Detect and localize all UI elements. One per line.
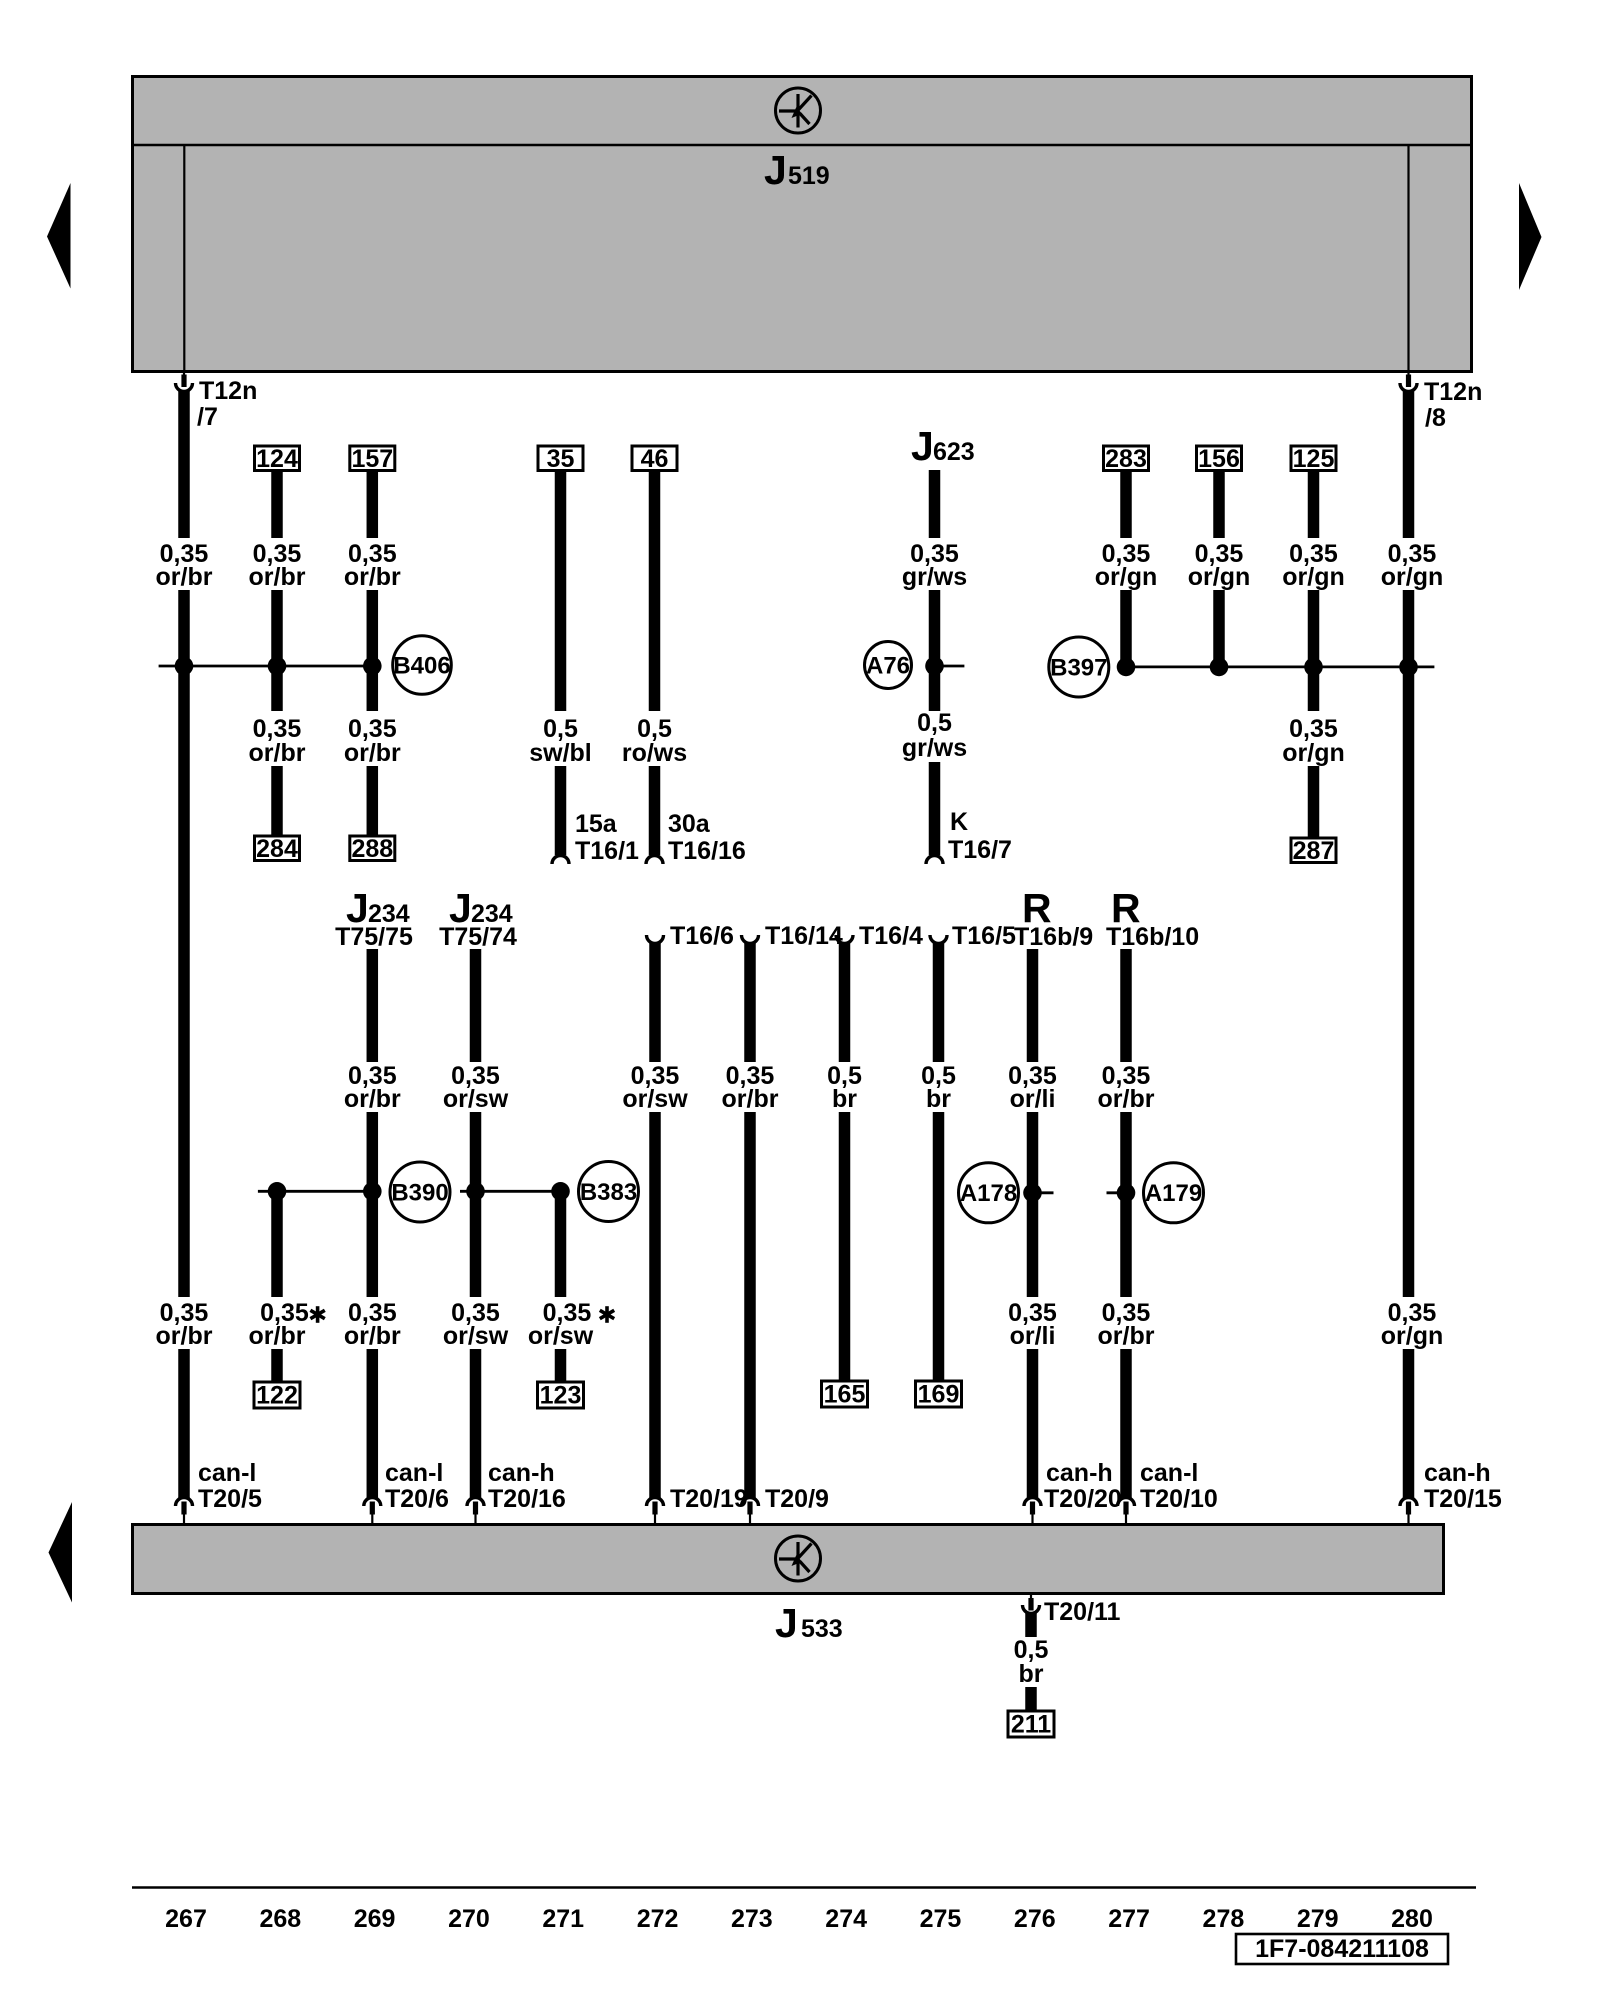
svg-text:273: 273	[731, 1905, 773, 1933]
wire label 0,35 or/li (lower, track 276)	[1008, 1299, 1057, 1350]
wire 0,35 or/gn from terminal 283	[1120, 470, 1132, 538]
terminal box 35	[538, 445, 583, 473]
svg-text:156: 156	[1198, 445, 1240, 473]
junction of or/li wire with connection A178	[1023, 1184, 1042, 1203]
svg-text:or/br: or/br	[722, 1085, 779, 1113]
connection symbol B383	[579, 1162, 639, 1222]
svg-text:157: 157	[351, 445, 393, 473]
wire segment through junction B406 (track 269)	[367, 590, 379, 711]
continuation arrow right (to adjacent current track)	[1519, 183, 1542, 290]
svg-text:T20/16: T20/16	[488, 1485, 566, 1513]
wire label 0,35 or/br (upper, track 268)	[249, 540, 306, 591]
label J623 (engine control unit)	[911, 423, 975, 469]
wire 0,35 or/br track 267 upper segment	[178, 390, 190, 538]
wire label 0,5 ro/ws	[622, 715, 687, 767]
wire 0,5 br down to terminal 169	[933, 1112, 945, 1382]
junction of wire 283 with connection B397	[1117, 658, 1136, 677]
svg-text:277: 277	[1108, 1905, 1150, 1933]
wire 0,35 or/li down to T20/20	[1027, 1349, 1039, 1498]
wire label 0,5 br (track 274)	[827, 1062, 862, 1113]
svg-text:271: 271	[542, 1905, 584, 1933]
svg-text:283: 283	[1105, 445, 1147, 473]
svg-text:J: J	[764, 147, 787, 193]
svg-text:T20/5: T20/5	[198, 1485, 262, 1513]
svg-text:125: 125	[1293, 445, 1335, 473]
current-flow continuation symbol (circled arrow) on J519	[776, 88, 821, 133]
junction of wire 280 with connection B397	[1399, 658, 1418, 677]
svg-text:T16/1: T16/1	[575, 837, 639, 865]
continuation arrow bottom left	[49, 1502, 73, 1603]
svg-text:or/sw: or/sw	[528, 1322, 594, 1350]
svg-text:or/gn: or/gn	[1095, 563, 1158, 591]
svg-text:br: br	[926, 1085, 951, 1113]
wire 0,5 br from T16/4	[839, 942, 851, 1062]
terminal box 165 (earth connection)	[822, 1381, 868, 1409]
svg-text:or/gn: or/gn	[1282, 563, 1345, 591]
wire label 0,5 gr/ws	[902, 709, 967, 762]
wire segment to connection B397 (track of 156)	[1213, 590, 1225, 667]
svg-text:T20/10: T20/10	[1140, 1485, 1218, 1513]
wire 0,35 or/sw from J234 T75/74	[470, 949, 482, 1062]
svg-text:or/sw: or/sw	[443, 1085, 509, 1113]
connection symbol B406	[393, 636, 452, 695]
open connector 30a T16/16	[646, 810, 746, 865]
wire label 0,35 or/br (upper, track 267)	[156, 540, 213, 591]
junction of wire 268 with connection B406	[268, 657, 287, 676]
svg-text:A179: A179	[1145, 1180, 1202, 1207]
svg-text:can-l: can-l	[385, 1459, 443, 1487]
label R T16b/9 (radio connector pin 9)	[1014, 885, 1093, 951]
svg-text:T75/75: T75/75	[335, 923, 413, 951]
connector T12n/7 at J519	[176, 371, 258, 431]
wire connection line B390 (or/br connection)	[258, 1190, 377, 1193]
connector T12n/8 at J519	[1400, 371, 1482, 432]
svg-text:T20/15: T20/15	[1424, 1485, 1502, 1513]
junction of wire 269 with connection B406	[363, 657, 382, 676]
current-flow continuation symbol (circled arrow) on J533	[776, 1536, 821, 1581]
terminal box 288	[350, 835, 395, 863]
svg-text:T16/6: T16/6	[670, 922, 734, 950]
connector T20/20 can-h at J533	[1024, 1459, 1122, 1524]
wire 0,5 gr/ws lower part	[929, 762, 941, 855]
wire 0,35 or/br down to terminal 288	[367, 766, 379, 837]
svg-text:K: K	[950, 808, 968, 836]
terminal box 283	[1104, 445, 1149, 473]
open connector T16/14	[742, 922, 843, 950]
svg-text:or/li: or/li	[1010, 1322, 1056, 1350]
svg-text:or/li: or/li	[1010, 1085, 1056, 1113]
label J234 T75/74 (airbag control unit pin 74)	[439, 885, 517, 951]
wire 0,35 or/br to T20/6	[367, 1349, 379, 1498]
svg-text:124: 124	[256, 445, 298, 473]
wire label 0,35 or/br (mid, track 277)	[1098, 1062, 1155, 1113]
junction of wire 122 with connection B390	[268, 1182, 287, 1201]
svg-text:or/br: or/br	[1098, 1322, 1155, 1350]
svg-text:211: 211	[1011, 1711, 1051, 1739]
wire 0,35 or/br down from B390 to label (track 268 lower)	[271, 1191, 283, 1297]
wire 0,35 gr/ws from J623	[929, 470, 941, 538]
svg-text:T20/20: T20/20	[1044, 1485, 1122, 1513]
wire 0,35 or/li from R T16b/9	[1027, 949, 1039, 1062]
svg-text:278: 278	[1203, 1905, 1245, 1933]
open connector T16/5	[930, 922, 1016, 950]
svg-text:J: J	[911, 423, 934, 469]
wire label 0,5 br (earth wire)	[1014, 1636, 1049, 1688]
svg-text:276: 276	[1014, 1905, 1056, 1933]
svg-text:T75/74: T75/74	[439, 923, 517, 951]
terminal box 125	[1291, 445, 1336, 473]
connection symbol A76	[865, 642, 912, 689]
connector T20/11 at bottom of J533	[1023, 1594, 1121, 1626]
svg-text:15a: 15a	[575, 810, 618, 838]
svg-text:br: br	[1019, 1660, 1044, 1688]
terminal box 211 (earth connection)	[1008, 1711, 1054, 1739]
current track numbers 267-280	[165, 1905, 1433, 1933]
wire label 0,35 or/br (track 273)	[722, 1062, 779, 1113]
terminal box 46	[632, 445, 677, 473]
svg-text:T16/14: T16/14	[765, 922, 843, 950]
svg-text:269: 269	[354, 1905, 396, 1933]
open connector T16/6	[647, 922, 734, 950]
open connector T16/4	[836, 922, 923, 950]
internal pin line T12n/8 inside J519	[1407, 146, 1409, 370]
connector T20/16 can-h at J533	[467, 1459, 566, 1524]
wire label 0,35 or/sw (track 272)	[622, 1062, 688, 1113]
svg-text:can-h: can-h	[1424, 1459, 1491, 1487]
svg-text:or/br: or/br	[1098, 1085, 1155, 1113]
wire 0,5 sw/bl lower part	[555, 766, 567, 855]
wire label 0,35 or/gn (track of 156)	[1188, 540, 1251, 591]
wire label 0,5 sw/bl	[529, 715, 592, 767]
svg-text:or/br: or/br	[249, 1322, 306, 1350]
wire connection line B383 (or/sw connection)	[460, 1190, 563, 1193]
svg-text:519: 519	[788, 162, 830, 190]
svg-text:sw/bl: sw/bl	[529, 739, 592, 767]
wire label 0,35 or/br (below junction, track 268)	[249, 715, 306, 767]
wire label 0,35 or/gn (track of 125)	[1282, 540, 1345, 591]
current track scale line	[132, 1886, 1476, 1889]
svg-text:or/sw: or/sw	[443, 1322, 509, 1350]
junction of gr/ws wire with connection A76	[925, 657, 944, 676]
continuation arrow left (to adjacent current track)	[47, 183, 71, 289]
label J519	[764, 147, 830, 193]
svg-text:or/gn: or/gn	[1381, 1322, 1444, 1350]
svg-text:274: 274	[825, 1905, 867, 1933]
wire 0,35 or/sw to T20/16	[470, 1349, 482, 1498]
svg-text:or/br: or/br	[156, 1322, 213, 1350]
connection A179 stub line	[1107, 1191, 1127, 1194]
svg-text:288: 288	[351, 835, 393, 863]
terminal box 284	[255, 835, 300, 863]
wire segment through junction B390 (track 269)	[367, 1112, 379, 1297]
open connector 15a T16/1	[552, 810, 639, 865]
open connector K T16/7	[926, 808, 1012, 864]
wire 0,35 or/gn down to terminal 287	[1308, 766, 1320, 839]
wire label 0,35 * or/sw (track 271 lower)	[528, 1299, 614, 1350]
wire gr/ws middle segment	[929, 590, 941, 711]
svg-text:123: 123	[540, 1382, 582, 1410]
svg-text:T20/11: T20/11	[1044, 1598, 1121, 1626]
wire 0,35 or/br down to T20/10	[1120, 1349, 1132, 1498]
wire 0,5 ro/ws lower part	[649, 766, 661, 855]
wire label 0,35 or/li (mid, track 276)	[1008, 1062, 1057, 1113]
wire 0,35 or/br between 157 and junction B406	[367, 470, 379, 538]
wire segment through junction A179 (track 277)	[1120, 1112, 1132, 1297]
wire 0,35 or/br down to T20/9	[744, 1112, 756, 1498]
terminal box 156	[1197, 445, 1242, 473]
junction of wire 156 with connection B397	[1210, 658, 1229, 677]
wire label 0,5 br (track 275)	[921, 1062, 956, 1113]
connector T20/6 can-l at J533	[364, 1459, 449, 1524]
svg-text:T16b/10: T16b/10	[1106, 923, 1199, 951]
svg-text:/8: /8	[1425, 404, 1446, 432]
terminal box 124	[255, 445, 300, 473]
wire segment through junction B383 (track 270)	[470, 1112, 482, 1297]
wire 0,35 or/br from J234 T75/75	[367, 949, 379, 1062]
connector T20/19 at J533	[647, 1485, 748, 1524]
wire label 0,35 or/br (below junction, track 269)	[344, 715, 401, 767]
wire label 0,35 or/sw (lower, track 270)	[443, 1299, 509, 1350]
svg-text:B397: B397	[1050, 655, 1107, 682]
svg-text:or/br: or/br	[344, 1322, 401, 1350]
svg-text:169: 169	[918, 1381, 960, 1409]
svg-text:279: 279	[1297, 1905, 1339, 1933]
svg-text:280: 280	[1391, 1905, 1433, 1933]
label J234 T75/75 (airbag control unit pin 75)	[335, 885, 413, 951]
terminal box 122	[254, 1382, 300, 1410]
svg-text:T20/6: T20/6	[385, 1485, 449, 1513]
connection symbol A179	[1144, 1163, 1204, 1223]
svg-text:can-h: can-h	[1046, 1459, 1113, 1487]
svg-text:or/br: or/br	[344, 739, 401, 767]
terminal box 157	[350, 445, 395, 473]
svg-text:B383: B383	[580, 1179, 637, 1206]
wire label 0,35 or/br (lower, track 267)	[156, 1299, 213, 1350]
svg-text:1F7-084211108: 1F7-084211108	[1255, 1935, 1429, 1963]
connection A76 stub line	[935, 665, 965, 668]
svg-text:30a: 30a	[668, 810, 711, 838]
wire segment to connection B397 (track of 283)	[1120, 590, 1132, 667]
svg-text:165: 165	[824, 1381, 866, 1409]
wire 0,35 or/gn track 280 lower segment	[1403, 1349, 1415, 1498]
svg-text:or/sw: or/sw	[622, 1085, 688, 1113]
connection symbol B390	[390, 1162, 450, 1222]
diagram number box 1F7-084211108	[1236, 1934, 1448, 1964]
wire label 0,35 or/br (lower, track 277)	[1098, 1299, 1155, 1350]
wire label 0,35 or/gn (below junction, track 279)	[1282, 715, 1345, 767]
svg-text:br: br	[832, 1085, 857, 1113]
connection symbol B397	[1049, 637, 1109, 697]
junction of J234/75 wire with connection B390	[363, 1182, 382, 1201]
connector T20/5 can-l at J533	[176, 1459, 263, 1524]
svg-text:T12n: T12n	[1424, 378, 1482, 406]
connector T20/15 can-h at J533	[1400, 1459, 1502, 1524]
connection symbol A178	[959, 1163, 1019, 1223]
svg-text:/7: /7	[197, 403, 218, 431]
connector T20/10 can-l at J533	[1118, 1459, 1218, 1524]
wire label 0,35 or/br (lower, track 269)	[344, 1299, 401, 1350]
svg-text:can-l: can-l	[198, 1459, 256, 1487]
svg-text:or/br: or/br	[249, 563, 306, 591]
label R T16b/10 (radio connector pin 10)	[1106, 885, 1199, 951]
wire 0,35 or/br down to terminal 284	[271, 766, 283, 837]
svg-text:T16/5: T16/5	[952, 922, 1016, 950]
svg-text:or/gn: or/gn	[1188, 563, 1251, 591]
wire 0,35 or/br track 267 lower segment	[178, 1349, 190, 1498]
terminal box 123	[538, 1382, 584, 1410]
svg-text:533: 533	[801, 1615, 843, 1643]
junction of wire 125 with connection B397	[1304, 658, 1323, 677]
svg-text:A178: A178	[960, 1180, 1017, 1207]
wire label 0,35 or/gn (track of 283)	[1095, 540, 1158, 591]
svg-text:T16/7: T16/7	[948, 836, 1012, 864]
svg-text:ro/ws: ro/ws	[622, 739, 687, 767]
svg-text:272: 272	[637, 1905, 679, 1933]
svg-text:284: 284	[256, 835, 298, 863]
wire stub into terminal 122	[271, 1349, 283, 1383]
wire 0,35 or/br track 267 middle segment	[178, 590, 190, 1297]
svg-text:B390: B390	[391, 1180, 448, 1207]
svg-text:J: J	[775, 1600, 798, 1646]
control unit J533 (data bus diagnostic interface) grey box	[133, 1525, 1444, 1594]
svg-text:T12n: T12n	[199, 377, 257, 405]
svg-text:T20/9: T20/9	[765, 1485, 829, 1513]
wire 0,5 br from T16/5	[933, 942, 945, 1062]
wire 0,35 or/sw from T16/6	[649, 942, 661, 1062]
wire label 0,35 gr/ws	[902, 540, 967, 591]
wire 0,35 or/gn track 280 long segment	[1403, 590, 1415, 1297]
wire segment to connection B397 (track of 125)	[1308, 590, 1320, 711]
wire 0,35 or/br from T16/14	[744, 942, 756, 1062]
svg-text:46: 46	[641, 445, 669, 473]
wire 0,5 sw/bl from terminal 35	[555, 470, 567, 711]
junction of J234/74 wire with connection B383	[466, 1182, 485, 1201]
svg-text:267: 267	[165, 1905, 207, 1933]
wire 0,5 br from T20/11	[1025, 1613, 1037, 1637]
svg-text:or/br: or/br	[249, 739, 306, 767]
junction of or/br wire with connection A179	[1117, 1184, 1136, 1203]
svg-text:or/br: or/br	[344, 1085, 401, 1113]
control unit J519 (onboard supply control unit) grey box	[133, 77, 1472, 372]
wire connection line B397 (or/gn connection)	[1126, 666, 1434, 669]
svg-text:or/br: or/br	[156, 563, 213, 591]
svg-text:287: 287	[1293, 837, 1335, 865]
wire 0,35 or/br between 124 and junction B406	[271, 470, 283, 538]
wire label 0,35 or/br (mid, track 269)	[344, 1062, 401, 1113]
svg-text:122: 122	[256, 1382, 298, 1410]
wire 0,35 or/gn from terminal 125	[1308, 470, 1320, 538]
wire 0,35 or/gn track 280 upper segment	[1403, 390, 1415, 538]
wire segment through junction B406 (track 268)	[271, 590, 283, 711]
wire label 0,35 or/gn (lower, track 280)	[1381, 1299, 1444, 1350]
svg-text:270: 270	[448, 1905, 490, 1933]
svg-text:A76: A76	[866, 653, 910, 680]
wire 0,5 ro/ws from terminal 46	[649, 470, 661, 711]
svg-text:0,5: 0,5	[917, 709, 952, 737]
svg-text:or/gn: or/gn	[1381, 563, 1444, 591]
svg-text:T16/4: T16/4	[859, 922, 923, 950]
terminal box 287	[1291, 837, 1336, 865]
svg-text:gr/ws: gr/ws	[902, 734, 967, 762]
wire label 0,35 * or/br (track 268 lower)	[249, 1299, 325, 1350]
svg-text:35: 35	[547, 445, 575, 473]
svg-text:268: 268	[259, 1905, 301, 1933]
wire label 0,35 or/br (upper, track 269)	[344, 540, 401, 591]
svg-text:275: 275	[920, 1905, 962, 1933]
wire label 0,35 or/gn (upper, track 280)	[1381, 540, 1444, 591]
svg-text:or/br: or/br	[344, 563, 401, 591]
terminal box 169 (earth connection)	[916, 1381, 962, 1409]
wire label 0,35 or/sw (mid, track 270)	[443, 1062, 509, 1113]
junction of wire 267 with connection B406	[175, 657, 194, 676]
wire segment through junction A178 (track 276)	[1027, 1112, 1039, 1297]
svg-text:B406: B406	[393, 653, 450, 680]
internal pin line T12n/7 inside J519	[183, 146, 185, 370]
connector T20/9 at J533	[742, 1485, 829, 1524]
wire stub into terminal 123	[555, 1349, 567, 1383]
wire 0,5 br down to terminal 211	[1025, 1687, 1037, 1712]
connection A178 stub line	[1033, 1191, 1054, 1194]
svg-text:T16b/9: T16b/9	[1014, 923, 1093, 951]
label J533	[775, 1600, 843, 1646]
junction of wire 123 with connection B383	[551, 1182, 570, 1201]
svg-text:623: 623	[933, 438, 975, 466]
svg-text:T16/16: T16/16	[668, 837, 746, 865]
svg-text:can-h: can-h	[488, 1459, 555, 1487]
svg-text:can-l: can-l	[1140, 1459, 1198, 1487]
wire 0,5 br down to terminal 165	[839, 1112, 851, 1382]
svg-text:T20/19: T20/19	[670, 1485, 748, 1513]
wire 0,35 or/br from R T16b/10	[1120, 949, 1132, 1062]
wire connection line B406 (or/br positive connection)	[159, 665, 378, 668]
svg-text:or/gn: or/gn	[1282, 739, 1345, 767]
wire 0,35 or/gn from terminal 156	[1213, 470, 1225, 538]
wire 0,35 or/sw down to T20/19	[649, 1112, 661, 1498]
wire 0,35 or/sw down from B383 to label (track 271 lower)	[555, 1191, 567, 1297]
svg-text:gr/ws: gr/ws	[902, 563, 967, 591]
